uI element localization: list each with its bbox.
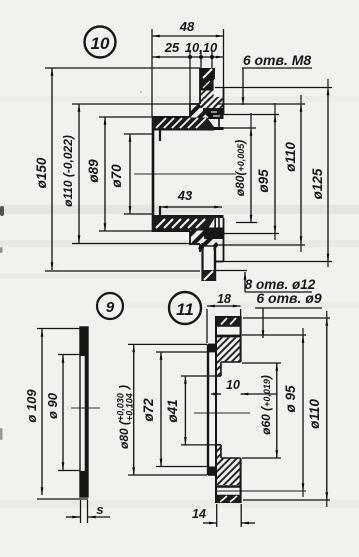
dim D90 bbox=[45, 355, 80, 471]
svg-text:43: 43 bbox=[177, 188, 193, 203]
dim 14 bbox=[192, 504, 255, 527]
dim D110 right bbox=[243, 318, 330, 500]
dim D109 bbox=[24, 329, 88, 500]
hub face bbox=[207, 344, 209, 475]
flange hatch block bottom bbox=[217, 458, 241, 485]
D89 outer top bbox=[152, 116, 190, 118]
svg-text:ø60 (+0,019): ø60 (+0,019) bbox=[259, 375, 273, 435]
svg-text:25: 25 bbox=[164, 40, 180, 55]
svg-text:10: 10 bbox=[91, 34, 110, 53]
svg-text:6 отв. ø9: 6 отв. ø9 bbox=[256, 290, 321, 306]
svg-text:ø41: ø41 bbox=[165, 399, 180, 422]
svg-text:ø95: ø95 bbox=[256, 169, 271, 193]
svg-text:s: s bbox=[96, 502, 103, 517]
dim D150 bbox=[34, 68, 200, 271]
svg-text:11: 11 bbox=[176, 300, 194, 319]
flange hatch block top bbox=[217, 338, 241, 363]
centerline fig11 bbox=[194, 412, 250, 414]
flange cap hatch bottom bbox=[217, 496, 241, 504]
disc right edge thick bbox=[85, 327, 88, 497]
bore shoulder D70/D80 bbox=[159, 128, 161, 141]
step hatch top bbox=[190, 105, 212, 119]
dim D72 bbox=[141, 352, 208, 467]
fig11 dim over-runs bbox=[303, 311, 327, 507]
balloon 10 bbox=[85, 27, 116, 58]
flange left face bbox=[215, 316, 217, 503]
lug walls + D12 slot bbox=[203, 243, 216, 281]
recess D60 edges bbox=[221, 361, 241, 363]
step faces bbox=[189, 104, 191, 117]
dim 43 bbox=[160, 188, 222, 207]
label 6 otv. M8 bbox=[242, 52, 312, 105]
web hatch bottom bbox=[217, 445, 222, 458]
svg-text:10: 10 bbox=[226, 378, 240, 392]
dim 18 bbox=[207, 292, 241, 343]
svg-text:ø125: ø125 bbox=[310, 168, 325, 199]
balloon 9 bbox=[97, 293, 123, 319]
bore bottom thick bbox=[153, 215, 224, 218]
bore top thick bbox=[153, 127, 224, 130]
flange hatch under hole bbox=[200, 97, 224, 108]
hole D9 bottom edges bbox=[216, 485, 241, 488]
svg-text:ø80(+0,005): ø80(+0,005) bbox=[233, 140, 247, 196]
dim line over-runs bbox=[251, 79, 328, 267]
disc bottom section fill bbox=[80, 471, 89, 497]
disc outline bbox=[71, 327, 100, 497]
bore D41 edges bbox=[216, 375, 221, 377]
flange right face bbox=[223, 88, 225, 115]
disc top section fill bbox=[80, 327, 89, 356]
svg-text:ø 109: ø 109 bbox=[24, 389, 39, 423]
bottom wall hatch band bbox=[153, 216, 215, 231]
M8 hole black zone bbox=[201, 79, 215, 98]
svg-text:ø72: ø72 bbox=[141, 398, 156, 422]
svg-text:ø110: ø110 bbox=[283, 142, 298, 172]
dim D80 +0,030/+0,104 bbox=[116, 344, 208, 475]
dim D60 +0,019 bbox=[242, 363, 281, 458]
D89 outer bottom bbox=[152, 230, 190, 232]
lug hatched cap bbox=[202, 270, 217, 281]
centerline fig10 bbox=[134, 173, 236, 175]
dim 48 bbox=[152, 19, 224, 117]
svg-text:ø110: ø110 bbox=[307, 399, 322, 429]
flange bottom edge bbox=[216, 501, 241, 503]
disc centerline bbox=[71, 407, 100, 409]
dim D95 right bbox=[215, 115, 279, 234]
svg-text:9: 9 bbox=[106, 299, 115, 316]
svg-text:ø 95: ø 95 bbox=[283, 385, 298, 413]
hub ring sections bbox=[207, 344, 217, 352]
svg-text:6 отв. М8: 6 отв. М8 bbox=[243, 52, 312, 68]
svg-text:18: 18 bbox=[217, 292, 231, 306]
flange top edge bbox=[199, 68, 215, 70]
flange top edge + D110 ext bbox=[216, 316, 241, 318]
svg-text:14: 14 bbox=[192, 507, 206, 521]
dim 10 (recess depth) bbox=[211, 378, 277, 394]
plate right face below bore bbox=[214, 218, 216, 230]
flange cap hatch top bbox=[217, 317, 241, 326]
svg-text:ø89: ø89 bbox=[86, 159, 101, 183]
dim D89 bbox=[86, 117, 153, 231]
balloon 11 bbox=[169, 292, 201, 324]
svg-text:48: 48 bbox=[179, 19, 195, 34]
svg-text:ø80 (: ø80 ( bbox=[117, 419, 131, 449]
svg-text:ø70: ø70 bbox=[109, 164, 124, 188]
flange cap hatch (top, M8 zone cap) bbox=[200, 68, 215, 79]
dim 25,10,10 bbox=[152, 40, 224, 104]
boss bottom edge bbox=[215, 261, 224, 263]
dim D125 right bbox=[200, 88, 332, 262]
dim D80 right bbox=[224, 128, 258, 223]
dim D110 right bbox=[216, 104, 305, 245]
flange left face bbox=[199, 68, 201, 104]
svg-text:+0,104: +0,104 bbox=[125, 393, 135, 421]
label 8 otv. D12 bbox=[216, 271, 316, 293]
svg-text:ø150: ø150 bbox=[34, 157, 49, 188]
step hatch bottom (slope) bbox=[190, 230, 218, 252]
svg-text:ø 90: ø 90 bbox=[45, 392, 60, 419]
dim D70 bbox=[109, 134, 152, 214]
left face bbox=[152, 116, 155, 232]
flange right face segments bbox=[240, 316, 242, 362]
dim s (thickness) bbox=[66, 500, 110, 523]
web hatch top bbox=[217, 362, 222, 376]
scan edge specks bbox=[0, 91, 189, 440]
recess floor bbox=[218, 115, 220, 129]
black wedge top (recess wall) bbox=[203, 108, 224, 119]
flange body bbox=[208, 316, 241, 503]
scan streaks bbox=[0, 96, 359, 508]
svg-text:ø110 (-0,022): ø110 (-0,022) bbox=[61, 135, 75, 207]
D110 outer top/bottom bbox=[189, 103, 200, 105]
dim D41 bbox=[165, 376, 218, 445]
dim D95 right bbox=[217, 335, 306, 491]
label 6 otv. D9 bbox=[255, 290, 322, 338]
part: cup outline bbox=[152, 68, 224, 262]
hole D9 top edges bbox=[216, 325, 241, 327]
black wedge bottom bbox=[204, 228, 224, 240]
top wall hatch band bbox=[153, 118, 215, 131]
dim D110 left bbox=[61, 104, 190, 244]
